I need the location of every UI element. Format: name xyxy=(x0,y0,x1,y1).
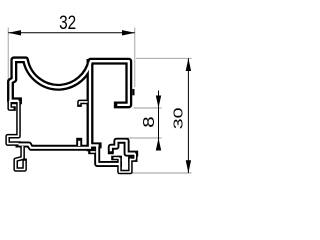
lower stub right of middle wall xyxy=(91,150,96,155)
dim line 30 xyxy=(187,58,189,173)
svg-text:32: 32 xyxy=(59,11,76,33)
arrow 30 top xyxy=(186,58,191,71)
arrowheads xyxy=(8,30,191,173)
ext line lower (8 dim) xyxy=(128,137,162,139)
profile walls: pass 1 black (thin walls) xyxy=(8,101,136,172)
arm stub right of middle wall xyxy=(91,142,99,148)
tab at left stub xyxy=(10,101,14,109)
dim line 32 xyxy=(8,32,135,34)
top barb on middle wall xyxy=(80,102,88,105)
bridge foot to tail xyxy=(130,157,135,162)
bottom band/arm + step down + lower band + right foot + bar xyxy=(19,145,92,148)
svg-text:8: 8 xyxy=(140,116,157,127)
ext line left (32 dim) xyxy=(7,28,9,95)
ext line bottom (30 dim) xyxy=(127,172,192,174)
ext line right (32 dim) xyxy=(134,28,136,88)
ext line upper (8 dim) xyxy=(134,107,162,109)
extension lines (thin gray) xyxy=(8,28,191,174)
profile walls: pass 1 black (medium walls) xyxy=(19,141,136,164)
middle wall xyxy=(87,63,94,148)
dim line 8 xyxy=(158,91,160,151)
arrow 8 up xyxy=(156,138,161,151)
arrow 8 down xyxy=(156,96,161,109)
arrow 32 right xyxy=(122,30,135,35)
arrow 32 left xyxy=(8,30,21,35)
lower-lower left wall + left hook xyxy=(8,101,19,144)
bottom barb stub xyxy=(76,141,82,146)
dimension lines (black thin) xyxy=(8,33,188,173)
right wall bump (outer line jog) xyxy=(132,89,134,95)
profile walls: pass 1 black (main thick walls) xyxy=(11,60,129,148)
right foot U-channel xyxy=(120,158,131,172)
pass 2 white cores xyxy=(11,60,129,148)
left descender + left foot xyxy=(16,146,25,170)
ext line top (30 dim) xyxy=(136,57,192,59)
svg-text:30: 30 xyxy=(171,108,186,130)
step-down wall right of middle wall + lower band + right foot + bar xyxy=(97,147,119,165)
arrow 30 bottom xyxy=(186,160,191,173)
main outline: J-foot, right wall, top edge, arc recess, left wall, stub xyxy=(11,60,129,105)
hook tail xyxy=(133,154,138,160)
lower serrated hook xyxy=(111,141,135,154)
right foot left flange xyxy=(114,156,120,161)
